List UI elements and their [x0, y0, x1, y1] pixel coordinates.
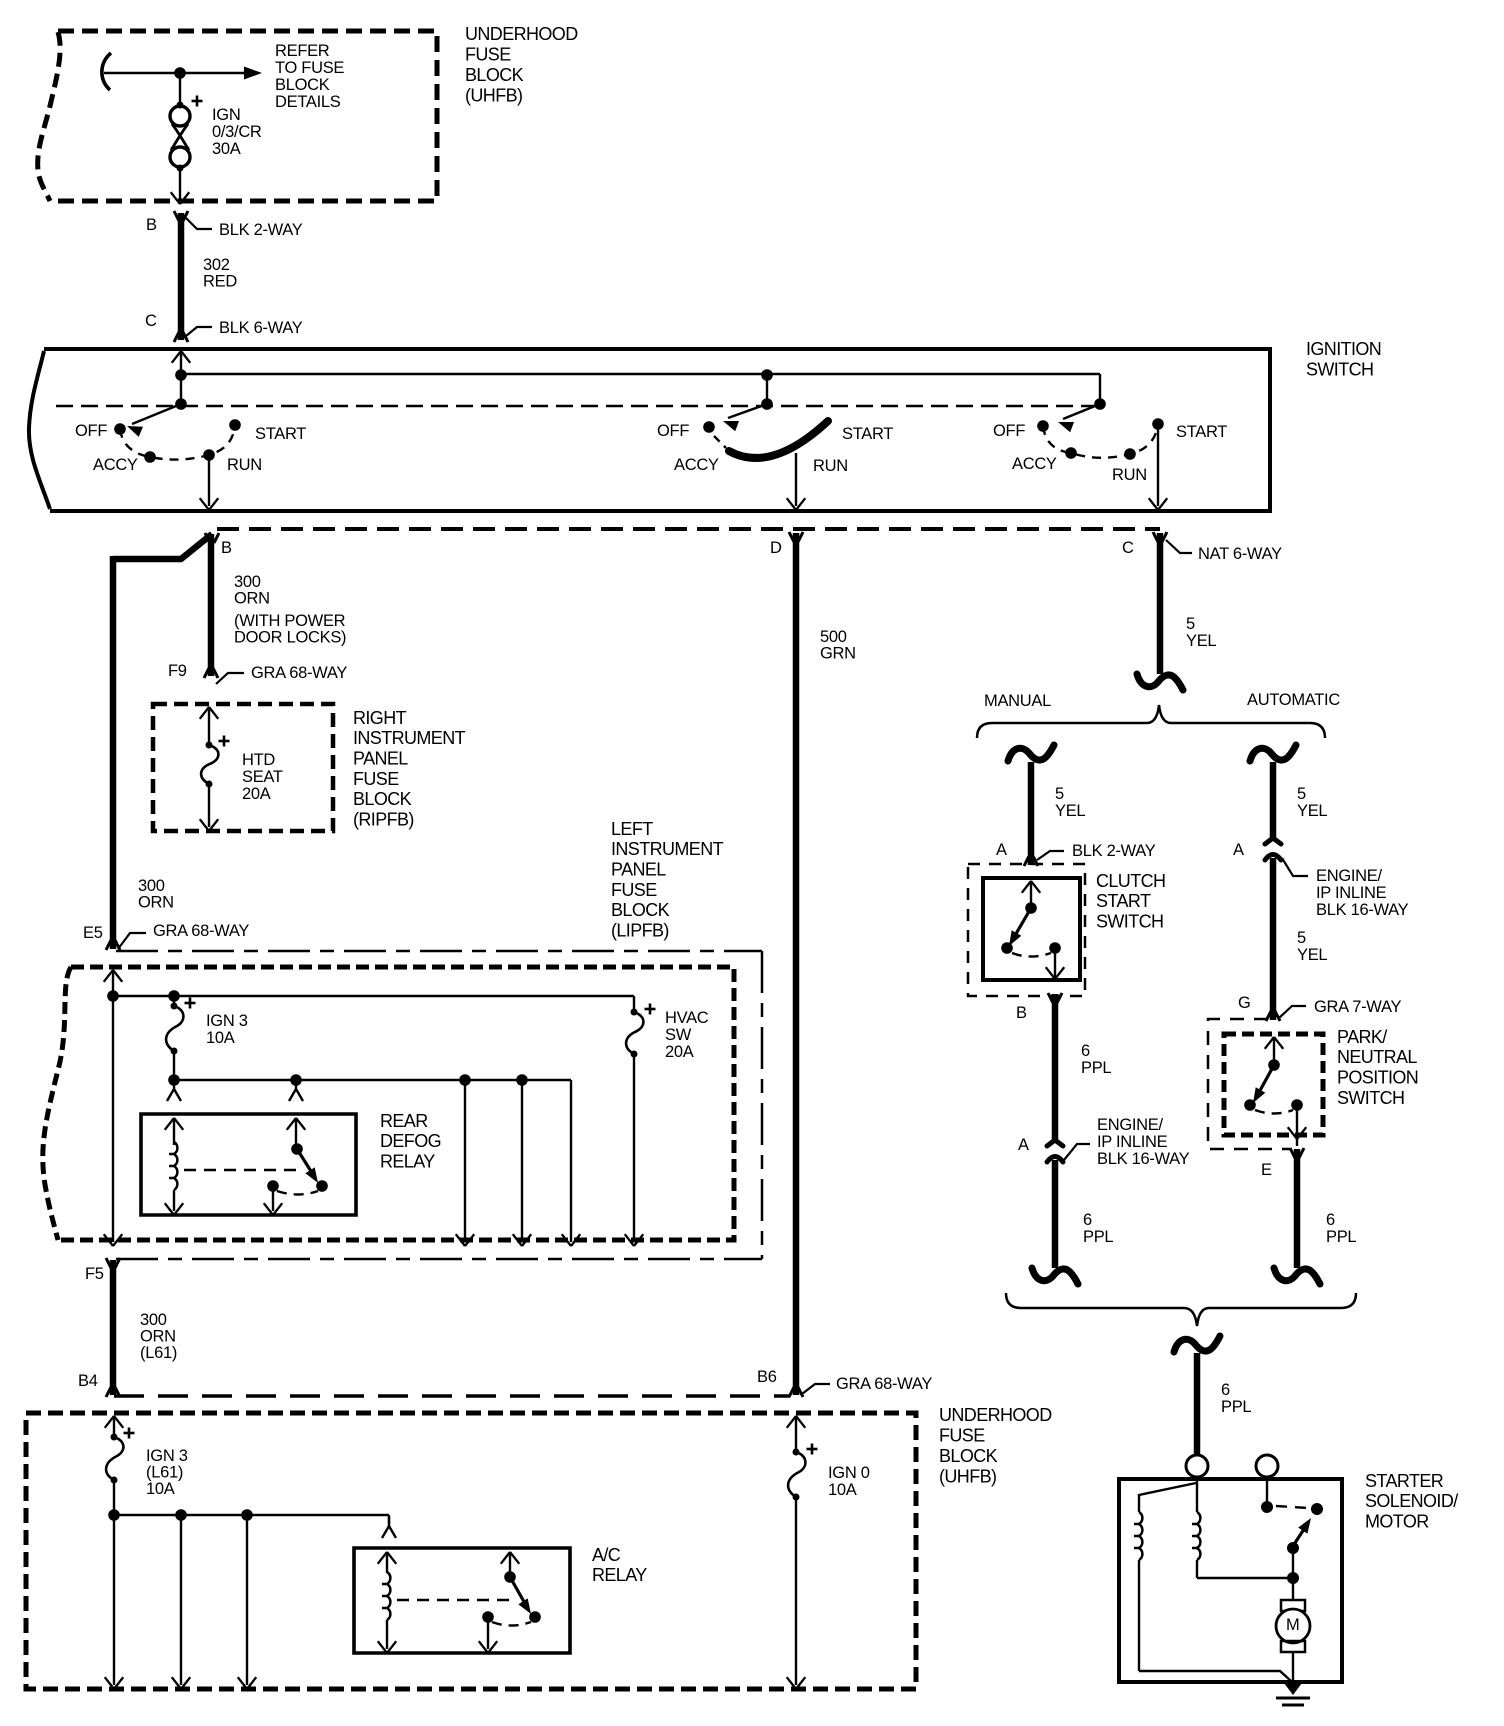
svg-text:ACCY: ACCY: [1012, 455, 1057, 473]
underhood fuse block (UHFB) top detail box: [38, 31, 437, 201]
switch3 wiper arm: [1058, 404, 1100, 432]
connector C label: [145, 312, 157, 330]
label IGN 3 10A: [206, 1012, 248, 1047]
switch1 RUN output: [200, 455, 218, 510]
svg-text:5: 5: [1297, 785, 1306, 803]
clutch switch open contact: [1001, 942, 1013, 954]
wire 5 YEL from C: [1153, 532, 1167, 674]
AC switch closed contact: [529, 1611, 541, 1623]
wire continuation hook inside UHFB: [102, 53, 111, 90]
svg-text:YEL: YEL: [1186, 632, 1216, 650]
label 300 ORN E5: [138, 877, 174, 912]
PNP switch output wire: [1288, 1105, 1306, 1146]
wire ignition feed entry: [172, 351, 190, 404]
connector G label: [1238, 994, 1251, 1012]
svg-text:TO FUSE: TO FUSE: [275, 59, 344, 77]
plus mark breaker: [192, 96, 203, 107]
svg-text:GRA 68-WAY: GRA 68-WAY: [153, 922, 249, 940]
plus IGN 0: [807, 1444, 818, 1455]
node motor junction: [1287, 1572, 1299, 1584]
switch2 wiper arm: [723, 404, 767, 431]
svg-text:START: START: [842, 425, 893, 443]
svg-text:A: A: [1233, 841, 1244, 859]
svg-text:FUSE: FUSE: [939, 1425, 985, 1445]
fuse IGN 0 10A: [787, 1449, 806, 1690]
defog output arrow: [264, 1186, 282, 1215]
label A/C RELAY: [592, 1545, 647, 1585]
starter motor M: [1276, 1578, 1310, 1682]
node branch2: [516, 1074, 528, 1086]
svg-text:D: D: [770, 539, 782, 557]
leader BLK 6-WAY: [186, 327, 212, 336]
switch1 RUN contact: [203, 449, 215, 461]
svg-text:OFF: OFF: [993, 422, 1025, 440]
svg-text:5: 5: [1297, 929, 1306, 947]
svg-text:ACCY: ACCY: [674, 456, 719, 474]
label HTD SEAT 20A: [242, 751, 283, 803]
connector A automatic label: [1233, 841, 1244, 859]
leader GRA 68-WAY E5: [118, 933, 146, 949]
label NAT 6-WAY: [1198, 545, 1282, 563]
wire feed to fuse: [104, 72, 244, 74]
starter contact feed: [1266, 1477, 1268, 1505]
connector B6 label: [757, 1368, 777, 1386]
svg-text:ORN: ORN: [234, 589, 270, 607]
svg-text:START: START: [1176, 423, 1227, 441]
node stub1: [175, 398, 187, 410]
AC switch entry arrow: [501, 1552, 519, 1577]
yconn defog switch feed: [289, 1080, 303, 1101]
svg-text:IGN 3: IGN 3: [146, 1447, 188, 1465]
svg-text:(WITH POWER: (WITH POWER: [234, 612, 346, 630]
svg-text:A: A: [1018, 1136, 1029, 1154]
clutch switch output wire: [1046, 948, 1064, 979]
svg-text:STARTER: STARTER: [1365, 1471, 1444, 1491]
node LIPFB feed: [107, 990, 119, 1002]
label IGNITION SWITCH: [1306, 339, 1381, 380]
right instrument panel fuse block box: [153, 704, 333, 831]
arrow REFER TO FUSE BLOCK DETAILS: [244, 67, 262, 80]
svg-text:300: 300: [138, 877, 165, 895]
label REAR DEFOG RELAY: [380, 1111, 441, 1172]
branch1 wire down: [456, 1080, 474, 1246]
UHFB branch2 down: [172, 1515, 190, 1689]
svg-text:20A: 20A: [665, 1043, 694, 1061]
svg-text:A: A: [996, 841, 1007, 859]
switch3 START contact: [1152, 418, 1164, 430]
svg-text:6: 6: [1326, 1211, 1335, 1229]
label 5 YEL manual: [1055, 785, 1085, 820]
svg-text:B: B: [146, 216, 157, 234]
brace manual/automatic: [977, 705, 1325, 738]
svg-text:CLUTCH: CLUTCH: [1096, 871, 1165, 891]
label BLK 2-WAY: [219, 221, 303, 239]
svg-text:10A: 10A: [146, 1480, 175, 1498]
svg-text:PANEL: PANEL: [353, 749, 408, 769]
svg-text:B4: B4: [78, 1372, 98, 1390]
node stub3: [1094, 398, 1106, 410]
E5 flare: [106, 940, 120, 950]
plus IGN 3 L61: [124, 1428, 135, 1439]
svg-text:IGNITION: IGNITION: [1306, 339, 1381, 359]
svg-text:REFER: REFER: [275, 42, 330, 60]
label IGN 0 10A: [828, 1464, 870, 1499]
starter closed contact: [1311, 1503, 1323, 1515]
svg-text:F5: F5: [85, 1265, 104, 1283]
node stub2: [761, 398, 773, 410]
label GRA 68-WAY E5: [153, 922, 249, 940]
switch3 RUN contact: [1124, 448, 1136, 460]
connector C ignition out label: [1122, 539, 1134, 557]
node IGN3 tap: [168, 990, 180, 1002]
LIPFB inner dashed box: [43, 967, 734, 1240]
fuse output wire: [200, 784, 218, 831]
defog switch output contact: [267, 1180, 279, 1192]
svg-text:IP INLINE: IP INLINE: [1316, 884, 1387, 902]
svg-text:MOTOR: MOTOR: [1365, 1512, 1429, 1532]
switch1 OFF contact: [114, 423, 126, 435]
UHFB branch1 down: [105, 1515, 123, 1689]
svg-text:500: 500: [820, 628, 847, 646]
circuit breaker IGN 0/3/CR 30A: [170, 102, 190, 172]
svg-text:NAT 6-WAY: NAT 6-WAY: [1198, 545, 1282, 563]
leader ENGINE IP INLINE automatic: [1282, 858, 1308, 876]
label IGN 3 (L61) 10A: [146, 1447, 188, 1498]
label 300 ORN (L61): [140, 1311, 177, 1362]
svg-text:5: 5: [1055, 785, 1064, 803]
label 5 YEL automatic lower: [1297, 929, 1327, 964]
switch3 position arc: [1043, 424, 1158, 458]
node bus 2: [761, 369, 773, 381]
svg-text:30A: 30A: [212, 140, 241, 158]
svg-text:BLK 16-WAY: BLK 16-WAY: [1316, 901, 1409, 919]
label 500 GRN: [820, 628, 856, 663]
svg-text:B6: B6: [757, 1368, 777, 1386]
switch1 wiper arm: [127, 404, 181, 437]
svg-text:UNDERHOOD: UNDERHOOD: [465, 24, 578, 44]
svg-text:PARK/: PARK/: [1337, 1027, 1387, 1047]
svg-text:PPL: PPL: [1221, 1398, 1251, 1416]
AC internal dashed link: [397, 1599, 510, 1602]
label 6 PPL clutch: [1081, 1042, 1111, 1077]
starter pull-in coil: [1134, 1512, 1142, 1671]
ignition dashed gang line: [56, 405, 1100, 407]
wire stub2: [766, 375, 768, 404]
switch3 labels: [993, 422, 1227, 484]
svg-text:10A: 10A: [828, 1481, 857, 1499]
svg-text:HTD: HTD: [242, 751, 275, 769]
svg-text:AUTOMATIC: AUTOMATIC: [1247, 691, 1340, 709]
svg-text:20A: 20A: [242, 785, 271, 803]
AC switch output contact: [482, 1611, 494, 1623]
A/C relay box: [354, 1548, 570, 1653]
svg-text:B: B: [221, 539, 232, 557]
fuse IGN 3 (L61) entry: [105, 1416, 123, 1437]
clutch switch pivot: [1025, 902, 1037, 914]
connector B ignition out label: [221, 539, 232, 557]
clutch start switch outer dashed box: [968, 864, 1085, 996]
connector E label: [1261, 1161, 1272, 1179]
label 5 YEL automatic: [1297, 785, 1327, 820]
switch1 labels: [75, 422, 306, 474]
svg-text:RUN: RUN: [1112, 466, 1147, 484]
svg-text:SW: SW: [665, 1026, 692, 1044]
svg-text:0/3/CR: 0/3/CR: [212, 123, 262, 141]
leader GRA 68-WAY F9: [216, 673, 244, 684]
yconn AC relay feed: [382, 1517, 396, 1538]
svg-text:PPL: PPL: [1326, 1228, 1356, 1246]
UHFB bus wire: [114, 1515, 389, 1524]
arrow exit UHFB: [171, 192, 189, 204]
label 5 YEL C: [1186, 615, 1216, 650]
svg-text:A/C: A/C: [592, 1545, 621, 1565]
svg-text:10A: 10A: [206, 1029, 235, 1047]
svg-text:5: 5: [1186, 615, 1195, 633]
starter switch to motor node: [1292, 1548, 1294, 1578]
park/neutral position switch entry: [1265, 1037, 1283, 1065]
svg-text:300: 300: [234, 573, 261, 591]
leader NAT 6-WAY: [1166, 540, 1192, 553]
starter pull-in coil feed: [1139, 1483, 1196, 1512]
svg-text:YEL: YEL: [1297, 802, 1327, 820]
wire 5 YEL automatic lower: [1266, 858, 1280, 1021]
RIPFB entry arrow: [200, 707, 218, 745]
svg-text:RIGHT: RIGHT: [353, 708, 407, 728]
switch2 RUN output: [787, 453, 805, 510]
clutch switch travel arc: [1012, 953, 1051, 957]
connector F9 label: [168, 662, 187, 680]
wire continuation automatic bottom: [1274, 1268, 1320, 1284]
switch2 bold wiper accy-run-start: [729, 421, 828, 458]
wire 300 ORN branch to F9: [204, 534, 218, 678]
svg-text:PPL: PPL: [1081, 1059, 1111, 1077]
wire continuation manual bottom: [1032, 1268, 1078, 1284]
svg-text:IGN: IGN: [212, 106, 240, 124]
svg-text:INSTRUMENT: INSTRUMENT: [353, 728, 466, 748]
node feed junction: [174, 67, 186, 79]
wire 6 PPL starter: [1194, 1353, 1201, 1456]
label RIGHT INSTRUMENT PANEL FUSE BLOCK (RIPFB): [353, 708, 466, 830]
AC output arrow: [479, 1617, 497, 1653]
wire continuation starter top: [1174, 1336, 1220, 1352]
starter switch pivot: [1287, 1542, 1299, 1554]
svg-text:YEL: YEL: [1297, 946, 1327, 964]
label 300 ORN with power door locks: [234, 573, 346, 647]
label 6 PPL starter: [1221, 1381, 1251, 1416]
switch1 position arc: [120, 425, 235, 460]
svg-text:GRN: GRN: [820, 644, 856, 662]
starter hold-in coil: [1192, 1512, 1200, 1578]
PNP outer dashed box: [1208, 1019, 1290, 1149]
label 6 PPL manual lower: [1083, 1211, 1113, 1246]
label STARTER SOLENOID MOTOR: [1365, 1471, 1458, 1532]
A/C relay coil: [378, 1572, 396, 1653]
svg-text:IP INLINE: IP INLINE: [1097, 1133, 1168, 1151]
svg-text:MANUAL: MANUAL: [984, 692, 1051, 710]
svg-text:E: E: [1261, 1161, 1272, 1179]
svg-text:(L61): (L61): [146, 1463, 183, 1481]
svg-text:POSITION: POSITION: [1337, 1068, 1418, 1088]
svg-text:OFF: OFF: [657, 422, 689, 440]
wire 300 ORN L61: [106, 1258, 120, 1397]
svg-text:(LIPFB): (LIPFB): [611, 920, 669, 940]
wire 6 PPL clutch: [1048, 993, 1062, 1140]
label UNDERHOOD FUSE BLOCK (UHFB) top: [465, 24, 578, 106]
node branch1: [459, 1074, 471, 1086]
label CLUTCH START SWITCH: [1096, 871, 1165, 932]
svg-text:PANEL: PANEL: [611, 860, 666, 880]
yconn defog coil feed: [167, 1080, 181, 1101]
svg-text:OFF: OFF: [75, 422, 107, 440]
switch2 off-accy dash: [714, 436, 726, 448]
AC switch travel arc: [492, 1622, 531, 1626]
inline connector engine/ip automatic: [1265, 838, 1281, 860]
PNP switch open contact: [1244, 1099, 1256, 1111]
label HVAC SW 20A: [665, 1009, 709, 1061]
wire breaker to B: [179, 167, 181, 201]
clutch start switch inner box: [983, 878, 1080, 980]
defog switch entry arrow: [287, 1118, 305, 1149]
wire 500 GRN: [789, 532, 803, 1397]
starter hold-in coil feed: [1196, 1477, 1198, 1512]
starter contact dot: [1261, 1501, 1273, 1513]
ground starter motor: [1276, 1683, 1310, 1705]
svg-text:PPL: PPL: [1083, 1228, 1113, 1246]
wire continuation manual top: [1008, 745, 1054, 761]
svg-text:BLOCK: BLOCK: [275, 76, 330, 94]
label 302 RED: [203, 256, 237, 291]
fuse HTD SEAT 20A: [201, 742, 218, 788]
connector A inline label: [1018, 1136, 1029, 1154]
leader BLK 2-WAY clutch: [1037, 851, 1064, 860]
LIPFB outer dashed box: [116, 951, 762, 1259]
svg-text:ENGINE/: ENGINE/: [1097, 1116, 1163, 1134]
plus HVAC: [645, 1004, 656, 1015]
svg-text:B: B: [1016, 1004, 1027, 1022]
defog relay coil: [165, 1142, 183, 1215]
label MANUAL: [984, 692, 1051, 710]
AC switch pivot: [504, 1571, 516, 1583]
clutch switch output contact: [1049, 942, 1061, 954]
switch3 START output: [1149, 424, 1167, 510]
svg-text:6: 6: [1081, 1042, 1090, 1060]
fuse IGN 3 10A: [166, 996, 183, 1080]
svg-text:302: 302: [203, 256, 230, 274]
switch2 labels: [657, 422, 893, 475]
bottom connector row dashed line: [114, 1394, 790, 1398]
leader ENGINE IP INLINE manual: [1064, 1144, 1090, 1160]
svg-text:BLK 6-WAY: BLK 6-WAY: [219, 319, 303, 337]
switch2 OFF contact: [703, 421, 715, 433]
connector A clutch label: [996, 841, 1007, 859]
svg-text:SEAT: SEAT: [242, 768, 283, 786]
svg-text:GRA 68-WAY: GRA 68-WAY: [251, 664, 347, 682]
svg-text:300: 300: [140, 1311, 167, 1329]
svg-text:LEFT: LEFT: [611, 819, 653, 839]
node bus 1: [175, 369, 187, 381]
svg-text:GRA 7-WAY: GRA 7-WAY: [1314, 998, 1401, 1016]
LIPFB branch bus: [174, 1080, 580, 1246]
wire continuation C: [1137, 674, 1183, 690]
svg-text:FUSE: FUSE: [465, 44, 511, 64]
svg-text:FUSE: FUSE: [353, 769, 399, 789]
wire continuation automatic top: [1250, 745, 1296, 761]
connector B clutch label: [1016, 1004, 1027, 1022]
svg-text:DETAILS: DETAILS: [275, 93, 341, 111]
PNP switch travel arc: [1255, 1110, 1293, 1114]
switch1 START contact: [229, 419, 241, 431]
node IGN3 L61 out: [108, 1509, 120, 1521]
fuse IGN 0 entry: [787, 1416, 805, 1452]
svg-text:ORN: ORN: [138, 893, 174, 911]
svg-text:SOLENOID/: SOLENOID/: [1365, 1491, 1458, 1511]
svg-text:BLK 16-WAY: BLK 16-WAY: [1097, 1150, 1190, 1168]
label AUTOMATIC: [1247, 691, 1340, 709]
svg-text:BLK 2-WAY: BLK 2-WAY: [219, 221, 303, 239]
svg-text:RELAY: RELAY: [380, 1152, 435, 1172]
node IGN3 out: [168, 1074, 180, 1086]
svg-text:DEFOG: DEFOG: [380, 1131, 441, 1151]
defog switch travel arc: [277, 1191, 318, 1195]
defog switch closed contact: [316, 1180, 328, 1192]
wire 300 ORN main dogleg: [113, 533, 219, 949]
svg-text:BLOCK: BLOCK: [353, 789, 412, 809]
starter ring terminal 1: [1186, 1455, 1208, 1477]
label BLK 6-WAY: [219, 319, 303, 337]
switch3 OFF contact: [1037, 420, 1049, 432]
PNP switch arm: [1253, 1065, 1274, 1103]
node UHFB tap2: [241, 1509, 253, 1521]
fuse IGN 3 (L61) 10A: [106, 1434, 123, 1516]
svg-text:SWITCH: SWITCH: [1337, 1088, 1404, 1108]
label GRA 7-WAY: [1314, 998, 1401, 1016]
svg-text:ORN: ORN: [140, 1327, 176, 1345]
starter switch arm: [1293, 1518, 1311, 1546]
svg-text:ACCY: ACCY: [93, 456, 138, 474]
node UHFB tap1: [175, 1509, 187, 1521]
LIPFB feed wire: [104, 970, 122, 1246]
svg-text:6: 6: [1221, 1381, 1230, 1399]
svg-text:E5: E5: [83, 924, 103, 942]
svg-text:(L61): (L61): [140, 1344, 177, 1362]
svg-text:6: 6: [1083, 1211, 1092, 1229]
svg-text:G: G: [1238, 994, 1251, 1012]
label ENGINE IP INLINE BLK 16-WAY automatic: [1316, 867, 1409, 919]
wire 5 YEL manual: [1024, 762, 1038, 866]
svg-text:START: START: [1096, 891, 1151, 911]
PNP inner dashed box: [1224, 1034, 1323, 1135]
PNP switch pivot: [1268, 1059, 1280, 1071]
node defog coil tap: [290, 1074, 302, 1086]
brace starter feed: [1006, 1293, 1356, 1326]
clutch switch entry: [1022, 881, 1040, 908]
wire 6 PPL manual lower: [1052, 1160, 1059, 1268]
wire 6 PPL automatic: [1290, 1148, 1304, 1268]
label 6 PPL automatic: [1326, 1211, 1356, 1246]
label BLK 2-WAY clutch: [1072, 842, 1156, 860]
branch2 wire down: [513, 1080, 531, 1246]
svg-text:(UHFB): (UHFB): [465, 85, 522, 105]
fuse HVAC SW 20A: [625, 1009, 644, 1247]
svg-text:INSTRUMENT: INSTRUMENT: [611, 839, 724, 859]
connector E5 label: [83, 924, 103, 942]
svg-text:RUN: RUN: [813, 457, 848, 475]
starter solenoid/motor box: [1119, 1479, 1342, 1682]
PNP switch output contact: [1291, 1099, 1303, 1111]
label UNDERHOOD FUSE BLOCK (UHFB) bottom: [939, 1405, 1052, 1487]
leader GRA 7-WAY: [1279, 1006, 1306, 1018]
svg-text:UNDERHOOD: UNDERHOOD: [939, 1405, 1052, 1425]
